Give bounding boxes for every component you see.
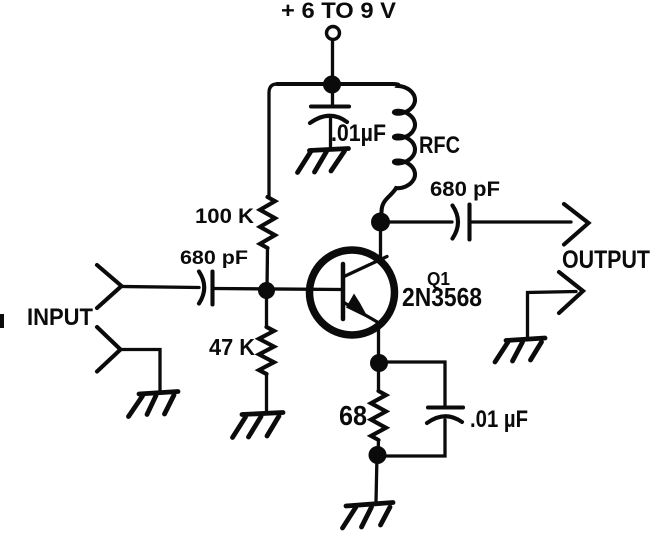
transistor Q1 base bar — [341, 264, 346, 319]
ground below 47K — [233, 413, 284, 438]
svg-text:INPUT: INPUT — [27, 304, 93, 331]
wire top rail left branch down to R 100K — [269, 84, 392, 197]
resistor 68 — [371, 391, 386, 440]
capacitor 680pF input straight plate — [210, 272, 214, 305]
output arrow terminal — [564, 204, 589, 245]
scan mark left edge — [0, 314, 4, 328]
transistor Q1 circle — [310, 250, 395, 335]
svg-text:100 K: 100 K — [195, 205, 254, 228]
ground emitter — [343, 503, 394, 529]
inductor RFC (coil) with top rail right corner and lead to collector node — [277, 84, 415, 212]
arrow input terminal — [97, 265, 122, 308]
capacitor C bypass .01uF top: wire from supply node — [331, 84, 334, 105]
wire input shield to ground — [121, 350, 160, 392]
svg-text:680 pF: 680 pF — [180, 248, 248, 269]
arrow input lower (shield) terminal — [97, 327, 121, 372]
node emitter bottom junction — [369, 446, 387, 464]
svg-text:47 K: 47 K — [209, 334, 255, 360]
supply terminal (open circle) — [327, 27, 340, 40]
node collector junction — [371, 213, 390, 232]
capacitor 680pF input curved plate — [199, 272, 204, 304]
svg-text:RFC: RFC — [419, 132, 460, 159]
ground input — [129, 392, 179, 417]
transistor Q1 collector line — [343, 257, 387, 278]
transistor Q1 emitter line — [343, 302, 379, 323]
wire supply stem — [331, 40, 334, 84]
svg-text:+ 6 TO 9 V: + 6 TO 9 V — [281, 0, 396, 23]
wire R47K to ground — [265, 374, 268, 412]
wire R100K bottom to base node — [265, 248, 269, 290]
capacitor 680pF output curved plate — [453, 206, 459, 239]
wire bottom junction to ground — [376, 455, 377, 502]
wire emitter to emitter node — [377, 329, 380, 363]
arrow output ground terminal — [559, 272, 583, 313]
wire base line — [214, 289, 342, 290]
capacitor .01uF emitter top plate — [428, 405, 463, 409]
capacitor .01uF emitter curved plate — [427, 416, 462, 423]
wire R68 leads — [376, 363, 380, 455]
wire output cap to arrow — [470, 220, 571, 223]
wire emitter node right to bypass cap — [379, 362, 445, 406]
capacitor C bypass curved plate — [310, 116, 347, 123]
wire collector node down to transistor — [379, 222, 382, 258]
wire output lower arrow to ground — [528, 292, 577, 338]
capacitor 680pF output straight plate — [467, 205, 471, 240]
wire base node to R 47K — [265, 291, 268, 328]
node emitter junction — [370, 354, 388, 372]
resistor 47K — [259, 327, 274, 374]
svg-text:.01 µF: .01 µF — [470, 406, 528, 433]
wire collector node to output cap — [381, 220, 453, 223]
svg-text:680 pF: 680 pF — [430, 178, 500, 201]
ground output — [495, 338, 545, 362]
svg-text:68: 68 — [339, 400, 367, 431]
svg-text:.01µF: .01µF — [331, 120, 386, 147]
ground below bypass cap — [298, 149, 349, 173]
resistor 100K — [260, 197, 275, 248]
svg-text:OUTPUT: OUTPUT — [562, 246, 650, 274]
node supply junction — [323, 76, 341, 94]
wire emitter cap to bottom rail — [378, 420, 445, 456]
capacitor C bypass top plate — [311, 104, 349, 108]
node base junction — [258, 282, 275, 299]
wire input arrow to cap — [122, 287, 199, 288]
transistor Q1 emitter arrowhead — [346, 294, 369, 319]
wire cap to ground — [329, 118, 332, 149]
svg-text:2N3568: 2N3568 — [402, 282, 482, 312]
